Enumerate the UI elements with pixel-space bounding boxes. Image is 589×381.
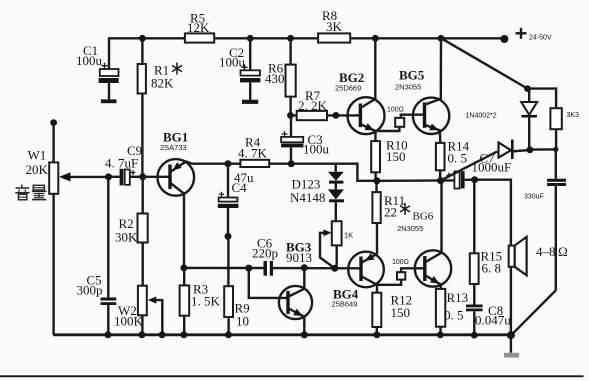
svg-text:2. 2K: 2. 2K — [298, 98, 328, 113]
resistor R2 — [138, 214, 148, 243]
resistor R6 — [286, 65, 296, 97]
wire R7 to BG2 base — [327, 114, 360, 116]
resistor R10 — [371, 141, 380, 181]
svg-text:3K3: 3K3 — [567, 112, 580, 119]
transistor BG6 — [415, 181, 451, 289]
svg-text:4–8 Ω: 4–8 Ω — [536, 244, 568, 259]
svg-text:6. 8: 6. 8 — [482, 261, 502, 276]
node input terminal W1 top — [50, 119, 57, 126]
label 4-8 ohm — [536, 244, 568, 259]
capacitor C7 — [447, 171, 475, 188]
label R3 1.5K — [191, 282, 221, 309]
wire top supply rail — [109, 38, 502, 69]
transistor BG2 — [348, 38, 385, 141]
node BG5 collector rail junction — [438, 35, 445, 42]
potentiometer W2 — [138, 286, 147, 316]
wire BG1 base lead — [143, 176, 169, 178]
svg-text:1N4002*2: 1N4002*2 — [466, 113, 497, 120]
capacitor C5 — [101, 177, 117, 335]
node C5 branch junction — [105, 173, 112, 180]
wire mid bus C6 to BG4 base — [273, 267, 361, 270]
node supply terminal — [500, 35, 508, 43]
wire R11 bottom to BG4 emitter — [376, 223, 378, 254]
svg-text:BG5: BG5 — [399, 67, 425, 82]
potentiometer 1K bias — [320, 221, 342, 268]
svg-text:R13: R13 — [447, 290, 469, 305]
svg-text:20K: 20K — [26, 162, 49, 177]
label BG4 25B649 — [332, 287, 359, 309]
svg-text:22: 22 — [384, 205, 397, 220]
node on BG2 base wire — [333, 112, 340, 119]
label R15 6.8 — [481, 249, 503, 276]
transistor BG4 — [348, 252, 384, 293]
label R9 10 — [235, 301, 250, 329]
node BG2 collector rail junction — [372, 35, 379, 42]
label C9 4.7uF — [105, 143, 142, 171]
svg-text:100u: 100u — [303, 142, 330, 157]
svg-text:1. 5K: 1. 5K — [191, 294, 221, 309]
svg-text:330uF: 330uF — [524, 194, 544, 201]
node rail C5 — [104, 331, 111, 338]
label R13 0.5 — [444, 290, 468, 323]
resistor R14 — [436, 143, 445, 181]
wire R15 top lead — [473, 180, 475, 254]
resistor R13 — [436, 289, 445, 335]
wire R4 to R10 node — [269, 164, 377, 181]
wire bottom ground rail — [53, 333, 511, 336]
node 1K pot bottom junction — [331, 265, 338, 272]
label C2 100u — [219, 45, 246, 70]
label BG2 25D669 — [335, 70, 364, 93]
svg-text:300p: 300p — [77, 283, 103, 298]
wire W1 wiper arm — [59, 172, 109, 181]
label R12 150 — [391, 293, 413, 321]
svg-text:2N3055: 2N3055 — [395, 83, 421, 92]
capacitor C9 — [109, 169, 143, 186]
label C3 100u — [303, 132, 330, 157]
node BG3 collector junction — [301, 264, 308, 271]
node diode 3K3 junction — [527, 146, 534, 153]
svg-text:100K: 100K — [114, 314, 144, 329]
node C9 R1 R2 base junction — [139, 173, 146, 180]
label 330uF — [524, 194, 544, 201]
node rail W2 wiper — [159, 331, 166, 338]
wire R6 top lead — [289, 38, 291, 64]
label BG6 2N3055 — [397, 211, 434, 234]
wire BG4 collector to 100 ohm — [377, 280, 401, 285]
bottom border line — [0, 375, 584, 377]
label C7 1000uF — [472, 151, 512, 175]
wire W2 wiper arm to ground — [148, 297, 163, 335]
label BG3 9013 — [286, 240, 312, 266]
node C4 bottom R9 junction — [225, 233, 232, 240]
resistor R1 — [138, 64, 146, 94]
svg-text:220p: 220p — [252, 246, 278, 261]
resistor R5 — [185, 33, 214, 42]
potentiometer W1 — [49, 162, 58, 193]
node rail R12 — [374, 331, 381, 338]
wire R2 top lead — [141, 177, 143, 214]
node diode top junction — [524, 85, 531, 92]
svg-text:0.047u: 0.047u — [475, 313, 511, 328]
node C2 top rail junction — [247, 35, 254, 42]
svg-text:25D669: 25D669 — [335, 84, 361, 93]
label D123 N4148 — [290, 177, 325, 206]
svg-text:430: 430 — [265, 71, 285, 86]
svg-text:150: 150 — [386, 149, 406, 164]
capacitor C1 — [99, 63, 119, 104]
resistor R15 — [470, 253, 479, 284]
node rail C8 — [471, 332, 478, 339]
node ground junction — [507, 331, 515, 339]
label BG1 2SA733 — [160, 130, 188, 153]
svg-text:2SA733: 2SA733 — [160, 143, 187, 152]
capacitor C2 — [240, 38, 260, 104]
svg-text:4. 7K: 4. 7K — [238, 146, 268, 161]
wire diagonal 330uF to ground node — [513, 290, 556, 333]
label BG5 2N3055 — [395, 67, 425, 91]
node rail BG3 emitter — [301, 331, 308, 338]
capacitor C8 — [466, 284, 483, 335]
svg-text:0. 5: 0. 5 — [444, 308, 464, 323]
svg-text:W1: W1 — [28, 148, 47, 163]
label R10 150 — [386, 138, 408, 165]
svg-text:30K: 30K — [115, 230, 138, 245]
svg-text:24-50V: 24-50V — [529, 35, 552, 42]
svg-text:10: 10 — [236, 314, 249, 329]
node R1 top rail junction — [139, 35, 146, 42]
label 100 ohm upper — [387, 107, 404, 114]
ground — [504, 335, 519, 357]
svg-text:C4: C4 — [232, 180, 248, 195]
label R7 2.2K — [298, 88, 328, 113]
label 47u C4 — [232, 170, 255, 195]
capacitor C6 — [264, 261, 274, 276]
svg-text:3K: 3K — [326, 19, 343, 34]
label W1 20K — [26, 148, 49, 178]
wire output to speaker column — [475, 180, 511, 246]
node C3 bottom R4 junction — [288, 160, 295, 167]
svg-text:12K: 12K — [187, 20, 210, 35]
wire R2 to W2 lead — [141, 243, 143, 286]
svg-text:2N3055: 2N3055 — [397, 224, 423, 233]
resistor R9 — [224, 236, 233, 334]
wire W1 top lead — [52, 123, 54, 163]
wire W1 bottom lead — [52, 194, 54, 335]
diode D1 of D123 N4148 — [328, 164, 344, 190]
label R1 82K with asterisk — [151, 63, 182, 91]
label C1 100u — [76, 43, 103, 68]
label W2 100K — [114, 303, 144, 329]
svg-text:25B649: 25B649 — [332, 300, 358, 309]
svg-text:100Ω: 100Ω — [392, 259, 409, 266]
resistor R3 — [180, 268, 190, 335]
wire R1 bottom lead — [141, 94, 143, 177]
node BG1 emitter C4 junction — [224, 160, 231, 167]
resistor 100 ohm BG4-BG6 — [397, 272, 405, 279]
resistor R12 — [372, 293, 381, 335]
label 1K — [344, 231, 353, 240]
label 24-50V — [529, 35, 552, 42]
label 3K3 — [567, 112, 580, 119]
wire mid bus BG1 collector to C6 — [184, 267, 264, 270]
resistor 3K3 — [528, 89, 562, 150]
node rail R9 — [225, 331, 232, 338]
speaker — [509, 237, 527, 335]
node R10 R11 junction — [373, 177, 380, 184]
label + supply polarity — [516, 28, 527, 39]
capacitor C3 — [281, 115, 303, 164]
label R14 0.5 — [448, 139, 470, 166]
label R6 430 — [265, 61, 285, 87]
label 100 ohm lower — [392, 259, 409, 266]
wire R6 bottom to R7 junction — [289, 97, 291, 116]
label R8 3K — [322, 8, 343, 34]
wire W2 bottom lead — [141, 315, 143, 335]
svg-text:N4148: N4148 — [290, 190, 325, 205]
capacitor C4 — [218, 164, 239, 237]
svg-text:100u: 100u — [76, 53, 103, 68]
label volume (yin liang) — [15, 185, 46, 200]
wire BG3 base L lead — [249, 268, 288, 298]
svg-text:150: 150 — [391, 305, 411, 320]
node output R14 BG6 junction — [437, 177, 444, 184]
wire diagonal supply to diode node — [441, 38, 527, 88]
node R6 top rail junction — [287, 35, 294, 42]
label C6 220p — [252, 236, 278, 261]
node rail W2 — [138, 331, 145, 338]
svg-text:1K: 1K — [344, 231, 353, 240]
label R2 30K — [115, 216, 138, 245]
transistor BG3 — [279, 268, 312, 335]
node R6 R7 C3 junction — [287, 112, 294, 119]
diode output horizontal 1N4002 — [499, 140, 530, 160]
node C7 R15 speaker junction — [471, 176, 478, 183]
svg-text:BG6: BG6 — [413, 211, 434, 223]
diode vertical 1N4002 — [521, 89, 537, 150]
wire R11 top lead — [375, 181, 377, 192]
wire output node bus — [377, 179, 455, 182]
svg-text:0. 5: 0. 5 — [448, 151, 468, 166]
label 1N4002*2 — [466, 113, 497, 120]
wire diagonal output to bias diode — [441, 151, 498, 180]
node 3K3 bottom junction — [553, 147, 558, 152]
resistor R4 — [228, 160, 269, 167]
node BG3 base branch junction — [245, 265, 252, 272]
resistor R11 — [372, 192, 380, 223]
wire node to 330uF column — [530, 148, 556, 151]
wire 100 ohm to BG6 base — [401, 268, 425, 272]
resistor 100 ohm BG2-BG5 — [376, 115, 424, 131]
svg-text:4. 7uF: 4. 7uF — [105, 156, 138, 171]
resistor R8 — [318, 33, 350, 42]
svg-text:9013: 9013 — [286, 250, 312, 265]
capacitor 330uF — [547, 149, 566, 290]
label R11 22 with mark — [384, 193, 410, 220]
svg-text:82K: 82K — [151, 76, 174, 91]
transistor BG5 — [413, 38, 449, 143]
svg-text:100u: 100u — [219, 55, 246, 70]
wire R1 top lead — [141, 38, 143, 64]
label C5 300p — [77, 273, 103, 298]
label R4 4.7K — [238, 135, 268, 161]
svg-text:100Ω: 100Ω — [387, 107, 404, 114]
label R5 12K — [187, 11, 210, 35]
node BG1 collector R3 junction — [180, 264, 187, 271]
node rail R13 — [437, 331, 444, 338]
node rail R3 — [180, 331, 187, 338]
label C8 0.047u — [475, 303, 511, 328]
resistor R7 — [290, 111, 327, 120]
diode D2 of D123 N4148 — [328, 189, 344, 221]
transistor BG1 — [158, 159, 228, 268]
